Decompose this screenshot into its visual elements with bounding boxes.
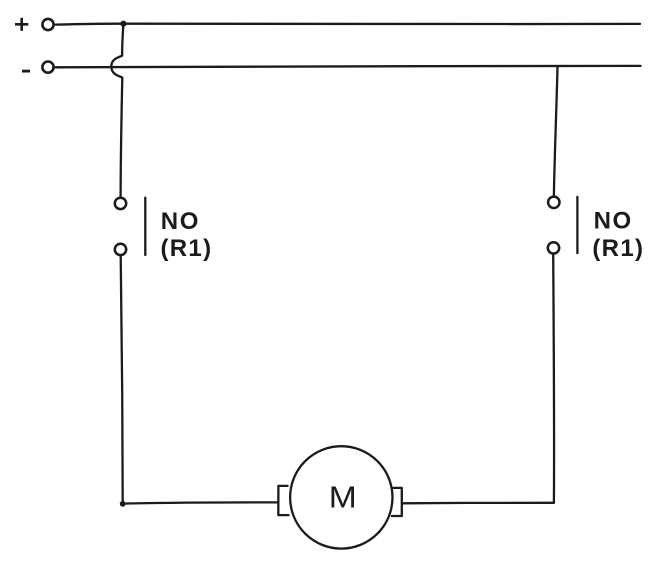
contact NO (R1) left: top contact circle bbox=[115, 198, 126, 209]
terminal T2 (-) bbox=[42, 62, 53, 73]
wire: + supply rail bbox=[56, 23, 640, 26]
svg-text:(R1): (R1) bbox=[161, 235, 213, 262]
wire: left contact down to bottom-left corner bbox=[121, 255, 123, 503]
svg-text:(R1): (R1) bbox=[592, 235, 644, 262]
wire: - supply rail bbox=[56, 66, 641, 67]
motor M1: left terminal bracket bbox=[278, 486, 288, 515]
+ terminal label bbox=[15, 18, 28, 31]
contact NO (R1) left: bottom contact circle bbox=[115, 244, 126, 255]
- terminal label bbox=[22, 70, 30, 73]
svg-text:NO: NO bbox=[161, 208, 200, 235]
junction dot at bottom-left corner bbox=[120, 501, 126, 507]
terminal T1 (+) bbox=[42, 19, 53, 30]
wire: motor to bottom-right corner bbox=[402, 502, 554, 505]
svg-text:M: M bbox=[329, 480, 357, 515]
junction dot: + rail to left branch bbox=[120, 21, 126, 27]
contact NO (R1) left: actuator bar bbox=[144, 198, 146, 255]
motor M1: right terminal bracket bbox=[392, 488, 402, 516]
contact NO (R1) right: bottom contact circle bbox=[548, 242, 559, 253]
wire: - rail tee down to right contact bbox=[554, 67, 558, 196]
svg-text:NO: NO bbox=[594, 208, 633, 235]
wire: bottom horizontal from corner to motor bbox=[123, 502, 278, 503]
contact NO (R1) right: actuator bar bbox=[576, 197, 578, 253]
motor M1: body circle bbox=[290, 446, 392, 548]
contact NO (R1) right: top contact circle bbox=[548, 197, 559, 208]
wire: right branch vertical riser bbox=[552, 255, 555, 503]
wire: left branch from + rail with hop over - rail bbox=[111, 24, 123, 196]
